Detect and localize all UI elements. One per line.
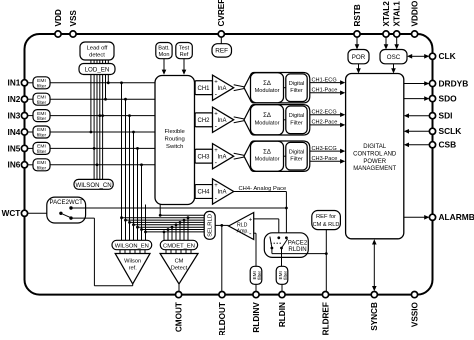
svg-text:CVREF: CVREF [217, 0, 226, 27]
svg-text:Modulator: Modulator [255, 157, 280, 163]
svg-text:CH1-ECG: CH1-ECG [312, 77, 337, 83]
svg-text:filter: filter [37, 133, 47, 139]
svg-text:EMI: EMI [37, 94, 46, 100]
svg-text:VSS: VSS [69, 10, 78, 27]
svg-text:CH3-ECG: CH3-ECG [312, 146, 337, 152]
svg-text:DRDYB: DRDYB [439, 78, 469, 88]
svg-text:Filter: Filter [290, 88, 303, 94]
svg-text:CONTROL AND: CONTROL AND [353, 151, 397, 157]
svg-text:VSSIO: VSSIO [410, 301, 419, 327]
svg-text:RLDIN: RLDIN [288, 246, 306, 253]
svg-text:SDI: SDI [439, 111, 453, 121]
svg-text:MANAGEMENT: MANAGEMENT [353, 166, 396, 172]
svg-text:IN4: IN4 [8, 128, 21, 137]
svg-text:CH2: CH2 [197, 118, 210, 124]
svg-text:filter: filter [37, 83, 47, 89]
svg-text:CH1: CH1 [197, 86, 210, 92]
svg-text:POWER: POWER [363, 159, 386, 165]
svg-text:Digital: Digital [289, 150, 305, 156]
svg-text:+: + [214, 183, 218, 189]
svg-text:SELRLD: SELRLD [208, 214, 214, 237]
svg-text:EMI: EMI [37, 127, 46, 133]
svg-text:IN1: IN1 [8, 79, 21, 88]
svg-text:InA: InA [218, 86, 227, 92]
svg-text:RLDIN: RLDIN [278, 302, 287, 327]
svg-text:filter: filter [283, 270, 288, 279]
svg-text:ΣΔ: ΣΔ [263, 113, 271, 119]
svg-text:Flexible: Flexible [165, 129, 186, 135]
svg-text:CH3: CH3 [197, 154, 210, 160]
svg-text:RLDINV: RLDINV [252, 302, 261, 333]
svg-text:EMI: EMI [37, 144, 46, 150]
svg-text:filter: filter [257, 270, 262, 279]
svg-text:IN6: IN6 [8, 161, 21, 170]
svg-text:CSB: CSB [439, 140, 457, 150]
svg-text:filter: filter [37, 149, 47, 155]
svg-text:WILSON_CN: WILSON_CN [75, 182, 111, 189]
svg-text:CMOUT: CMOUT [175, 302, 184, 332]
svg-text:RSTB: RSTB [353, 4, 362, 26]
svg-text:Modulator: Modulator [255, 88, 280, 94]
svg-text:ALARMB: ALARMB [439, 212, 474, 222]
svg-text:CH3-Pace: CH3-Pace [312, 156, 338, 162]
svg-text:RLDOUT: RLDOUT [218, 302, 227, 335]
svg-text:REF for: REF for [316, 214, 336, 220]
svg-text:CLK: CLK [439, 51, 456, 61]
svg-text:XTAL2: XTAL2 [382, 1, 391, 27]
svg-text:InA: InA [218, 190, 227, 196]
svg-text:ΣΔ: ΣΔ [263, 150, 271, 156]
svg-text:Filter: Filter [290, 120, 303, 126]
svg-text:Test: Test [179, 45, 190, 51]
svg-text:CH1-Pace: CH1-Pace [312, 88, 338, 94]
svg-text:VDD: VDD [54, 9, 63, 26]
svg-text:WCT: WCT [2, 209, 21, 218]
svg-text:RLDREF: RLDREF [321, 302, 330, 335]
svg-text:CMDET_EN: CMDET_EN [163, 244, 195, 250]
svg-text:filter: filter [37, 165, 47, 171]
svg-text:+: + [214, 111, 218, 117]
svg-text:Mon: Mon [159, 52, 170, 58]
svg-text:OSC: OSC [387, 54, 401, 61]
svg-text:+: + [249, 217, 253, 224]
svg-text:PACE2WCT: PACE2WCT [49, 199, 83, 206]
svg-text:SDO: SDO [439, 94, 458, 104]
svg-text:CH2-Pace: CH2-Pace [312, 120, 338, 126]
svg-text:WILSON_EN: WILSON_EN [115, 244, 149, 250]
svg-text:Detect: Detect [171, 265, 188, 271]
svg-text:Routing: Routing [165, 137, 185, 143]
svg-text:CM & RLD: CM & RLD [313, 222, 340, 228]
svg-text:ref.: ref. [129, 265, 138, 271]
svg-text:+: + [214, 79, 218, 85]
svg-text:CM: CM [175, 259, 184, 265]
svg-text:XTAL1: XTAL1 [393, 1, 402, 27]
svg-text:SYNCB: SYNCB [370, 302, 379, 331]
svg-text:Amp.: Amp. [237, 228, 249, 234]
svg-text:filter: filter [37, 116, 47, 122]
svg-text:REF: REF [215, 48, 228, 55]
svg-text:detect: detect [89, 53, 105, 59]
svg-text:Filter: Filter [290, 157, 303, 163]
svg-text:POR: POR [352, 54, 366, 61]
svg-text:IN3: IN3 [8, 112, 21, 121]
svg-text:Switch: Switch [166, 144, 183, 150]
svg-text:CH2-ECG: CH2-ECG [312, 110, 337, 116]
svg-text:Modulator: Modulator [255, 120, 280, 126]
svg-text:IN5: IN5 [8, 144, 21, 153]
svg-text:InA: InA [218, 118, 227, 124]
svg-text:CH4: CH4 [197, 190, 210, 196]
svg-text:EMI: EMI [37, 160, 46, 166]
svg-text:Batt.: Batt. [158, 45, 170, 51]
svg-text:Ref: Ref [180, 52, 189, 58]
svg-text:RLD: RLD [237, 222, 248, 228]
svg-text:DIGITAL: DIGITAL [363, 144, 387, 150]
svg-text:EMI: EMI [37, 111, 46, 117]
svg-text:InA: InA [218, 154, 227, 160]
svg-text:CH4- Analog Pace: CH4- Analog Pace [239, 186, 287, 192]
svg-text:+: + [214, 148, 218, 154]
svg-text:LOD_EN: LOD_EN [85, 67, 110, 74]
svg-text:Lead off: Lead off [87, 46, 108, 52]
svg-text:EMI: EMI [37, 78, 46, 84]
svg-text:ΣΔ: ΣΔ [263, 81, 271, 87]
svg-text:Digital: Digital [289, 113, 305, 119]
svg-text:Wilson: Wilson [124, 259, 141, 265]
svg-text:IN2: IN2 [8, 95, 21, 104]
svg-text:filter: filter [37, 100, 47, 106]
svg-text:SCLK: SCLK [439, 126, 462, 136]
svg-text:VDDIO: VDDIO [410, 0, 419, 27]
svg-text:Digital: Digital [289, 81, 305, 87]
